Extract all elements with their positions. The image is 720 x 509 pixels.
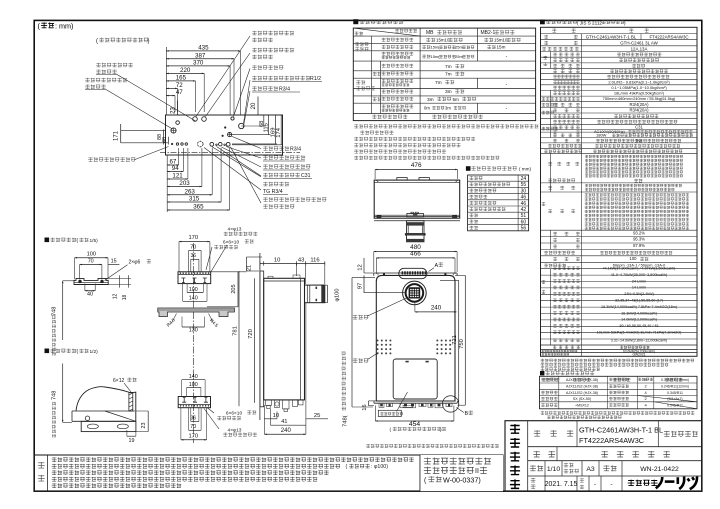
disclaimer line above notes box — [366, 444, 499, 448]
A-detail 748 pitch vertical dim — [62, 281, 64, 340]
upper/lower pipe labels — [382, 64, 414, 68]
svg-text:7m: 7m — [435, 80, 442, 86]
notes box text lines — [52, 457, 414, 462]
top dim datum extension line — [165, 47, 167, 115]
svg-text:47: 47 — [176, 89, 183, 96]
svg-text:240: 240 — [431, 304, 442, 311]
svg-text:25m: 25m — [455, 54, 463, 59]
svg-text:16.3kW(14,000kcal/h) 7.5kPa~7: 16.3kW(14,000kcal/h) 7.5kPa~7.4mH2O(15m) — [601, 305, 677, 309]
front view right dim 721 — [458, 280, 460, 405]
svg-text:WN-21-0422: WN-21-0422 — [640, 466, 679, 473]
label: drain plug (heating pump) — [88, 157, 135, 161]
exhaust port callout — [353, 315, 369, 320]
front view top mounting flange line — [374, 272, 457, 274]
svg-text:3W: 3W — [636, 138, 642, 143]
spec row: capacity — [553, 257, 557, 261]
front view air intake grids — [377, 340, 452, 355]
leader line heating hot out — [106, 90, 173, 130]
svg-text:121: 121 — [172, 173, 183, 180]
svg-text:FT4222ARS4AW3C: FT4222ARS4AW3C — [579, 436, 644, 445]
side view body — [264, 278, 305, 400]
spec table group column line segments — [550, 52, 552, 69]
svg-text:174: 174 — [276, 127, 282, 137]
svg-text:100: 100 — [189, 287, 198, 293]
label: conduit port C31 — [263, 173, 300, 177]
svg-text:25: 25 — [314, 413, 320, 419]
svg-text:56: 56 — [521, 226, 527, 232]
svg-text:750mm×480mm×240mm / 55.5kg(6: 750mm×480mm×240mm / 55.5kg(61.5kg) — [603, 96, 676, 101]
front view body outline — [376, 275, 455, 401]
label: gas port TG R3/4 — [263, 182, 289, 186]
spec row: noise — [544, 251, 575, 255]
svg-text:GTH-C2461AW3H-T-1 BL: GTH-C2461AW3H-T-1 BL — [586, 35, 637, 40]
upper layer label — [373, 72, 382, 76]
svg-text:4×φ13: 4×φ13 — [228, 428, 242, 434]
drawing name row — [556, 447, 558, 461]
bracket dim 140 mid — [183, 300, 207, 302]
spec row: optional items (large cell) — [548, 209, 552, 213]
svg-text:6×6×10: 6×6×10 — [223, 240, 240, 246]
svg-text:748: 748 — [52, 391, 58, 400]
top view port: earth screw circle — [231, 117, 234, 120]
settings/parts table title — [540, 371, 544, 375]
upper top-view feet marks — [377, 216, 381, 218]
svg-text:466: 466 — [410, 251, 421, 258]
svg-text:93.2%: 93.2% — [633, 230, 645, 235]
svg-text:II: II — [475, 468, 479, 475]
svg-text:12: 12 — [113, 294, 119, 300]
svg-text:10: 10 — [274, 257, 280, 263]
svg-text:1/2): 1/2) — [90, 349, 99, 355]
top view bottom dim 67 — [167, 164, 179, 166]
top view bottom dim 94 — [167, 171, 183, 173]
B-detail fan shaped bracket outline — [76, 387, 136, 421]
svg-text:12: 12 — [357, 264, 363, 270]
svg-text:23: 23 — [171, 107, 177, 114]
svg-text:80 / 60,55,50,45,40 / 45: 80 / 60,55,50,45,40 / 45 — [620, 324, 659, 328]
spec table title — [540, 20, 545, 25]
front view inner service panel — [393, 359, 437, 399]
svg-text:15m: 15m — [497, 45, 506, 50]
oidaki table column lines — [419, 28, 421, 121]
top view dims 88 and 48 (vertical) — [163, 130, 165, 145]
top view dim 23 (vertical) — [177, 101, 179, 116]
joint height row 9 — [469, 226, 477, 230]
svg-text:140: 140 — [189, 295, 198, 301]
title block left label column — [527, 421, 529, 492]
Noritz company logo — [628, 480, 658, 486]
top view dim 220 — [166, 72, 204, 74]
top view dim 20 (vertical right) — [257, 97, 259, 116]
upper top-view rear tabs — [397, 178, 407, 181]
B-detail 748 pitch vertical dim — [62, 364, 64, 423]
leader line drain plug heating pump — [135, 147, 169, 160]
top view bottom dim 365 — [167, 209, 229, 211]
svg-text:R3/4(20A): R3/4(20A) — [629, 108, 649, 113]
label: bath out port CCHM joint — [252, 31, 294, 35]
svg-text:-: - — [610, 481, 612, 488]
spec rows: connection diameters group — [542, 103, 559, 107]
svg-text:C31: C31 — [635, 124, 643, 129]
side view bottom dims 10/25/41/240 — [264, 418, 277, 420]
svg-text:+MSX12: +MSX12 — [575, 403, 589, 407]
svg-text:SX (SX-50): SX (SX-50) — [573, 397, 591, 401]
top view dim 47 — [166, 95, 175, 97]
bracket bottom piece — [178, 397, 210, 408]
svg-text:-: - — [594, 481, 596, 488]
top view: unit outline rect — [166, 115, 283, 155]
front view dim 16 (vertical) — [368, 401, 370, 406]
svg-text:R3/4: R3/4 — [290, 147, 301, 153]
svg-text:46: 46 — [521, 195, 527, 201]
label: earth screw — [252, 65, 283, 69]
svg-text:748(: 748( — [342, 415, 348, 427]
svg-text:24 L/min: 24 L/min — [632, 279, 646, 283]
bracket bottom dim 36 — [191, 421, 199, 423]
B-part dashed callout circle — [442, 396, 458, 412]
svg-text:476: 476 — [411, 162, 422, 169]
upper top-view body outline — [374, 180, 460, 218]
svg-text:1/5): 1/5) — [90, 238, 99, 244]
leader line heating return — [117, 75, 196, 122]
bracket dim 36 top — [191, 258, 199, 260]
svg-text:7m: 7m — [445, 72, 452, 78]
svg-text:94: 94 — [172, 165, 179, 172]
bracket top piece hooks — [181, 278, 185, 283]
air intake callout — [353, 358, 369, 363]
side view dim 21 vertical — [246, 257, 248, 271]
adaptation frame reference box divider — [419, 455, 421, 491]
oidaki rows: max piping group label — [355, 42, 368, 46]
svg-text:25m: 25m — [455, 45, 463, 50]
scale row — [544, 461, 546, 476]
spec table frame — [541, 27, 698, 356]
svg-text:MB2-1: MB2-1 — [481, 30, 496, 36]
svg-text:14.0kW(12,000kcal/h): 14.0kW(12,000kcal/h) — [621, 318, 657, 322]
joint height row 3 — [469, 189, 496, 193]
svg-text:18: 18 — [122, 295, 128, 301]
A-detail dim 15 — [108, 264, 119, 266]
svg-text:721: 721 — [452, 335, 458, 345]
B-detail small circle — [85, 416, 89, 420]
svg-text:0m: 0m — [424, 105, 430, 110]
svg-text:0.345/R11: 0.345/R11 — [667, 391, 683, 395]
svg-text:4×φ13: 4×φ13 — [228, 227, 242, 233]
B-detail plate top line — [72, 420, 136, 422]
top view bottom dim 121 — [167, 178, 188, 180]
svg-text:40: 40 — [87, 292, 93, 298]
electric wiring hole callout — [378, 410, 401, 416]
svg-text:205: 205 — [231, 284, 237, 293]
svg-text:TG R3/4: TG R3/4 — [263, 189, 283, 195]
settings table frame — [540, 376, 698, 409]
pipe type labels col — [382, 38, 414, 42]
top view dim 435 — [166, 50, 240, 52]
svg-text:140: 140 — [189, 374, 198, 380]
svg-text:203: 203 — [179, 180, 190, 187]
title block row lines — [528, 446, 702, 448]
front view right dim 750 — [464, 275, 466, 405]
side view wall line — [259, 253, 261, 420]
joint height row 7 — [469, 213, 477, 217]
top view port: bath out circle — [193, 117, 198, 122]
svg-text:19: 19 — [129, 438, 135, 444]
label: heating hot out port CCHM joint — [85, 78, 127, 82]
svg-text:55: 55 — [521, 182, 527, 188]
top view bottom dim 263 — [167, 194, 212, 196]
notes label chuuki (vertical two chars) — [38, 462, 45, 468]
top view port: bath return circle — [202, 117, 207, 122]
front view dim 97 (vertical) — [363, 275, 365, 292]
label: drain plug (bath pump) — [263, 164, 310, 168]
svg-text:387: 387 — [195, 52, 206, 59]
svg-text:( mm): ( mm) — [519, 166, 531, 171]
settings table rows — [541, 378, 558, 382]
spec rows: energy efficiency — [542, 202, 546, 205]
notes under oidaki table — [354, 124, 538, 128]
svg-text:315: 315 — [189, 196, 200, 203]
oidaki values row1-3 — [426, 38, 435, 42]
front view dim 480 — [374, 251, 457, 253]
product name row — [576, 421, 578, 447]
side view dim 781 vertical — [238, 271, 240, 406]
svg-text:3m: 3m — [427, 97, 434, 103]
front view dim 454 wall case pitch — [375, 420, 454, 422]
top view dim 72 — [166, 87, 177, 89]
svg-text:3.31~14.0kW(2,800~12,000kcal/h: 3.31~14.0kW(2,800~12,000kcal/h) — [611, 339, 668, 343]
bracket bottom dim 70 — [189, 429, 202, 431]
top view port: wiring conduit C31 dashed circle — [198, 141, 204, 147]
A-detail bracket outline (channel with end tabs) — [74, 278, 108, 284]
svg-text:GW2021: GW2021 — [632, 353, 645, 357]
oidaki piping conditions table header — [353, 19, 358, 24]
side view top dims 10/43/116 — [260, 262, 325, 264]
upper top-view (476 wide) dim — [375, 169, 457, 171]
front view bottom connectors — [379, 403, 452, 408]
svg-text:70: 70 — [190, 424, 196, 430]
B-detail dim 23 vertical — [147, 411, 149, 432]
top view: pipe axis dash-dot line — [160, 152, 300, 154]
top view port: drain overflow circle — [239, 123, 244, 128]
svg-text:36: 36 — [191, 253, 197, 259]
svg-text:24: 24 — [521, 176, 527, 182]
svg-text:3m: 3m — [445, 105, 451, 110]
top view dim 387 — [166, 58, 234, 60]
svg-text:20: 20 — [251, 102, 257, 109]
oidaki header diagonal cell — [353, 28, 420, 36]
svg-text:15m10: 15m10 — [436, 38, 450, 43]
upper top-view exhaust collar — [407, 213, 424, 216]
svg-text:18L/min 49kPa(0.50kgf/cm²): 18L/min 49kPa(0.50kgf/cm²) — [614, 90, 665, 95]
front view left dim 748 wall case pitch (vertical) — [351, 278, 353, 407]
spec row: NOx — [544, 264, 566, 268]
spec row: model name — [544, 41, 548, 45]
vertical label nounyuu shiyouzu (5 chars) — [510, 424, 520, 433]
A-detail holes — [79, 280, 82, 283]
front view exhaust top louvre (A-part oval) — [399, 268, 427, 278]
svg-text:32,35,37~48(1),50,55,60 (17): 32,35,37~48(1),50,55,60 (17) — [615, 299, 663, 303]
svg-text:97: 97 — [357, 283, 363, 289]
spec rows: hot water supply group — [542, 280, 546, 283]
spec row: solar — [548, 178, 575, 182]
label: water supply port R3/4 — [263, 146, 289, 150]
svg-text:(: ( — [96, 39, 98, 45]
top view dim 370 — [166, 65, 230, 67]
svg-text:100: 100 — [630, 256, 638, 261]
bracket bottom dims 140/100 — [182, 379, 205, 381]
svg-text:FT4222ARS4AW3C: FT4222ARS4AW3C — [649, 35, 688, 40]
joint height row 2 — [469, 182, 510, 186]
svg-text:AJX11JS2 (HJX-38): AJX11JS2 (HJX-38) — [566, 378, 598, 382]
svg-text:454: 454 — [409, 421, 421, 428]
leader lines right top callouts — [196, 36, 250, 117]
label: drain plug (neutralizer) — [263, 155, 305, 159]
svg-text:B: B — [465, 411, 469, 417]
svg-text:48: 48 — [162, 137, 168, 143]
spec row: safety devices (large cell) — [548, 162, 552, 166]
A-detail dim 70 — [80, 264, 102, 266]
svg-text:R3/4(20A): R3/4(20A) — [629, 102, 649, 107]
front view bottom base — [376, 400, 455, 402]
svg-text:100: 100 — [87, 251, 96, 257]
spec rows: electrical group — [542, 127, 559, 131]
joint height row 6 — [469, 207, 505, 211]
bracket top piece — [178, 272, 211, 284]
spec table header row texts — [552, 28, 556, 32]
joint height row 4 — [469, 195, 487, 199]
B-detail dim 19 — [127, 435, 136, 437]
bracket dim 70 top — [189, 250, 202, 252]
svg-text:15m(: 15m( — [431, 54, 441, 59]
top view small ports row left (drain plugs) — [171, 143, 172, 144]
svg-text:24N~0.5N(2.4kW): 24N~0.5N(2.4kW) — [624, 292, 654, 296]
svg-text:): ) — [148, 39, 150, 45]
svg-text:21: 21 — [247, 265, 253, 271]
svg-text:GTH-C2461AW3H-T-1 BL: GTH-C2461AW3H-T-1 BL — [579, 426, 663, 435]
svg-text:16: 16 — [362, 404, 368, 410]
bracket bottom dim 170 — [181, 439, 207, 441]
svg-text:AJX11JS2 (HJX-38): AJX11JS2 (HJX-38) — [566, 391, 598, 395]
svg-text:7m: 7m — [445, 64, 452, 70]
front view dim 240 — [415, 311, 457, 313]
svg-text:16.3kW(14,000kcal/h): 16.3kW(14,000kcal/h) — [621, 311, 657, 315]
spec row: accessories — [548, 186, 552, 190]
svg-text:GTH-C2461 3L AW: GTH-C2461 3L AW — [620, 41, 658, 46]
side view exhaust pipe — [305, 285, 325, 303]
svg-text:51: 51 — [521, 213, 527, 219]
B-detail base plate — [81, 421, 136, 431]
svg-text:130: 130 — [189, 328, 198, 334]
B-detail plate slots — [87, 424, 98, 429]
svg-text:23: 23 — [141, 423, 147, 429]
svg-text:W-00-0337): W-00-0337) — [443, 475, 481, 484]
svg-text:100: 100 — [189, 382, 198, 388]
svg-text:46: 46 — [521, 201, 527, 207]
spec rows: final three — [541, 344, 698, 346]
joint height row 8 — [469, 220, 477, 224]
svg-text:220: 220 — [180, 67, 191, 74]
svg-text:30: 30 — [521, 188, 527, 194]
wall plate horizontal rail — [158, 308, 235, 317]
A-detail dim 100 — [75, 257, 108, 259]
svg-text:750: 750 — [459, 339, 465, 349]
svg-text:170: 170 — [188, 433, 198, 439]
svg-text:240: 240 — [281, 428, 292, 434]
svg-text:180W: 180W — [596, 133, 607, 138]
svg-text:6×12: 6×12 — [113, 378, 124, 384]
top view small ports row right — [216, 144, 218, 146]
notes box frame — [34, 455, 503, 491]
label: drain(overflow) port R1/2 — [252, 76, 310, 80]
svg-text:0.345/R11(15mm): 0.345/R11(15mm) — [661, 378, 689, 382]
A-detail dim 40 — [85, 290, 95, 292]
svg-text:( JIS S 2112: ( JIS S 2112 — [577, 20, 602, 25]
bath upper/lower group label — [356, 80, 365, 84]
top view small dots near supply ports — [225, 127, 226, 128]
front view dim 466 — [376, 257, 455, 259]
label: hot water port R3/4 — [252, 86, 278, 90]
svg-text:2×φ6: 2×φ6 — [129, 260, 141, 266]
spec table item column line — [581, 34, 583, 357]
spec rows: installation/vent/ignition with group label — [543, 56, 547, 60]
svg-text:AJX11JS2 (HJX-38): AJX11JS2 (HJX-38) — [566, 385, 598, 389]
svg-text:70: 70 — [88, 258, 94, 264]
B-part detail title — [45, 349, 50, 354]
svg-text:12A,13A: 12A,13A — [631, 47, 648, 52]
spec table row lines — [541, 33, 698, 35]
svg-text:44.1kW(37,900kcal/h) / 4.07kW(: 44.1kW(37,900kcal/h) / 4.07kW(3,500kcal/… — [603, 267, 676, 271]
bracket dim 205 vertical — [237, 272, 239, 307]
svg-text:116: 116 — [310, 257, 319, 263]
label: heating low-temp out port (3P) CHM joint — [263, 197, 326, 201]
svg-text:720: 720 — [248, 329, 254, 339]
notes under settings table — [541, 411, 695, 414]
svg-text:15m10: 15m10 — [494, 38, 508, 43]
svg-text:3m: 3m — [445, 89, 452, 95]
joint height row 1 — [469, 176, 482, 180]
svg-text:263: 263 — [185, 188, 196, 195]
svg-text:72: 72 — [176, 82, 183, 89]
top view right dim chain 68/115/169/174 — [263, 115, 265, 127]
lower layer label — [373, 97, 382, 101]
top view dim 165 — [166, 80, 195, 82]
svg-text:365: 365 — [193, 204, 204, 211]
joint heights table frame — [468, 175, 529, 231]
exhaust duct below top-view — [407, 221, 425, 242]
svg-text:171: 171 — [114, 130, 120, 141]
svg-text:1/10: 1/10 — [547, 466, 560, 473]
svg-text:15m(: 15m( — [431, 45, 441, 50]
svg-text:87.9%: 87.9% — [633, 243, 645, 248]
spec row: gas type — [542, 47, 546, 51]
notes under spec table — [541, 359, 694, 363]
date row — [544, 476, 546, 491]
svg-text:370: 370 — [193, 60, 204, 67]
svg-text:781: 781 — [232, 326, 238, 336]
svg-text:5m: 5m — [453, 97, 460, 102]
spec values rows 5-12 — [617, 53, 661, 57]
svg-text:36: 36 — [191, 415, 197, 421]
side view top small parts — [268, 276, 273, 278]
svg-text:15: 15 — [111, 258, 117, 264]
upper top-view bottom inner line — [374, 214, 460, 216]
svg-text:165: 165 — [176, 75, 187, 82]
svg-text:95.3%: 95.3% — [633, 237, 645, 242]
spec row: product name — [544, 35, 548, 39]
svg-text:2021. 7.15: 2021. 7.15 — [545, 481, 578, 488]
svg-text:43: 43 — [298, 257, 304, 263]
top view: bottom extension line — [166, 155, 168, 212]
